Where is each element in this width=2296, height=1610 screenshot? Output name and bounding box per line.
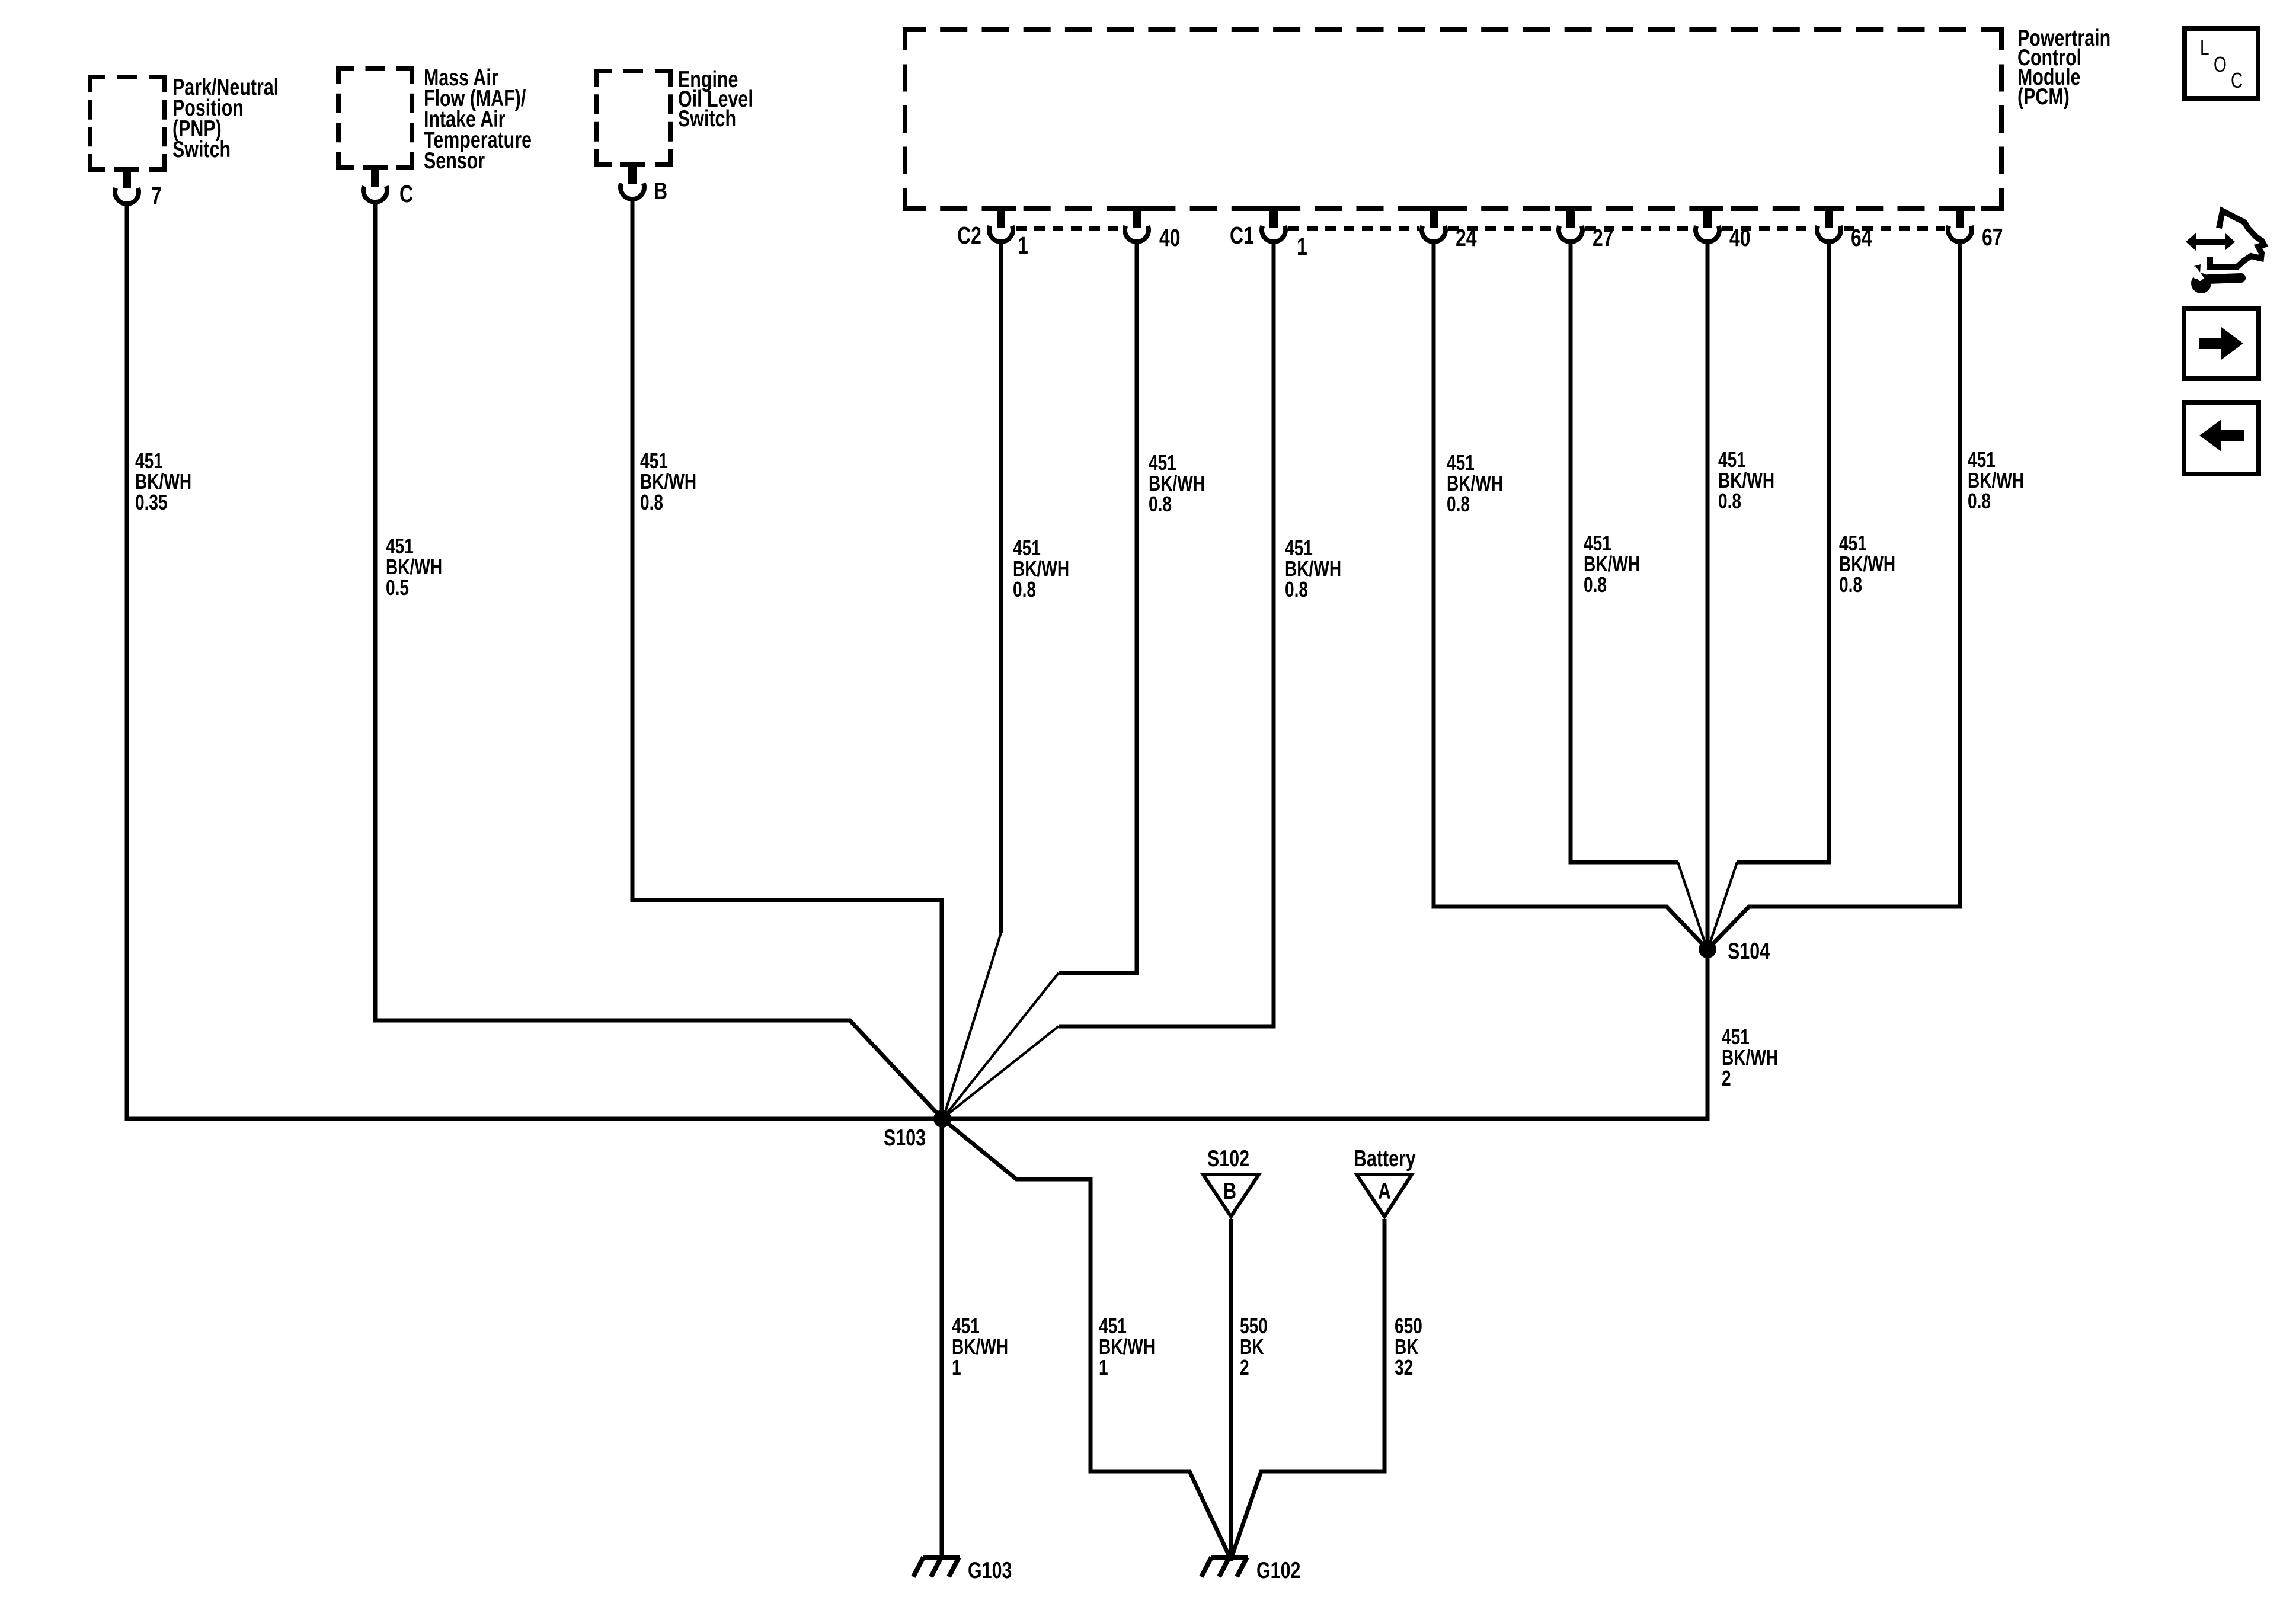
off-page connector S102 pin B triangle — [1203, 1145, 1259, 1217]
wire 451 BK/WH 0.5 MAF-C to S103 — [375, 202, 942, 1119]
wire 451 BK/WH 0.8 PCM C2-1 vertical — [999, 241, 1003, 933]
wire C2-40 splice lead into S103 — [944, 973, 1059, 1118]
wire 451 BK/WH 0.8 PCM C1-64 — [1737, 241, 1829, 862]
svg-text:0.8: 0.8 — [1285, 578, 1308, 601]
wire 451 BK/WH 0.8 oil level-B to S103, S103 to G103 — [632, 199, 942, 1557]
svg-text:S103: S103 — [884, 1125, 926, 1150]
Park/Neutral Position (PNP) Switch dashed box — [90, 77, 164, 169]
wire C1-1 splice lead into S103 — [944, 1026, 1059, 1118]
wire label 451 BK/WH 0.8 at x=1938 — [1149, 451, 1205, 516]
svg-text:24: 24 — [1456, 224, 1477, 251]
svg-text:0.8: 0.8 — [1718, 489, 1741, 513]
MAF/IAT Sensor label — [424, 65, 532, 173]
svg-text:0.8: 0.8 — [1584, 573, 1607, 597]
LOC legend box — [2185, 28, 2258, 98]
wire 451 BK/WH 0.8 PCM C1-40 to S104 — [1706, 241, 1710, 949]
wire C2-1 splice lead into S103 — [944, 933, 1001, 1118]
wire label 650 BK 32 at x=2353 — [1395, 1314, 1422, 1379]
PCM pin number labels — [1018, 223, 2003, 260]
Powertrain Control Module (PCM) dashed box — [905, 30, 2001, 209]
splice S103 — [884, 1110, 951, 1151]
svg-text:C: C — [2231, 69, 2243, 92]
svg-text:G103: G103 — [968, 1557, 1012, 1583]
PCM connector labels C2 C1 — [957, 222, 1254, 249]
svg-text:L: L — [2200, 36, 2209, 59]
Engine oil level switch connector pin B — [620, 162, 667, 204]
Engine Oil Level Switch label — [678, 66, 753, 131]
wire label 451 BK/WH 0.8 at x=2672 — [1584, 532, 1640, 597]
MAF sensor connector pin C — [363, 165, 413, 207]
wire label 451 BK/WH 1 at x=1606 — [952, 1314, 1008, 1379]
svg-text:0.8: 0.8 — [640, 491, 663, 514]
svg-text:Sensor: Sensor — [424, 148, 485, 173]
PCM connector C1 pin 27 terminal — [1555, 206, 1586, 242]
wire label 451 BK/WH 0.35 at x=228 — [135, 449, 191, 514]
PCM connector C1 pin 40 terminal — [1692, 206, 1723, 242]
splice S104 — [1699, 938, 1770, 964]
svg-text:(PCM): (PCM) — [2017, 84, 2070, 109]
svg-text:32: 32 — [1395, 1356, 1413, 1379]
ground G103 — [913, 1557, 1012, 1583]
backward arrow legend box — [2184, 402, 2259, 474]
svg-text:0.8: 0.8 — [1149, 492, 1172, 516]
svg-text:40: 40 — [1729, 224, 1751, 251]
wire 451 BK/WH 0.8 PCM C1-1 — [1059, 241, 1274, 1026]
PCM connector C1 pin 24 terminal — [1418, 206, 1449, 242]
svg-text:0.8: 0.8 — [1968, 489, 1991, 513]
svg-text:1: 1 — [952, 1356, 961, 1379]
svg-text:S102: S102 — [1207, 1145, 1249, 1171]
wire 451 BK/WH 1 S103 to G102 — [942, 1119, 1230, 1557]
off-page connector Battery pin A triangle — [1354, 1145, 1416, 1217]
svg-text:G102: G102 — [1256, 1557, 1300, 1583]
svg-text:2: 2 — [1240, 1356, 1249, 1379]
PCM label — [2017, 25, 2110, 109]
wire label 451 BK/WH 0.5 at x=651 — [386, 534, 442, 600]
svg-text:0.8: 0.8 — [1013, 578, 1036, 601]
svg-text:C2: C2 — [957, 222, 981, 249]
svg-text:Switch: Switch — [678, 105, 736, 131]
Mass Air Flow (MAF)/Intake Air Temperature Sensor dashed box — [338, 68, 412, 168]
Engine Oil Level Switch dashed box — [596, 71, 670, 165]
svg-text:2: 2 — [1722, 1067, 1731, 1090]
ground G102 — [1201, 1557, 1300, 1583]
svg-text:64: 64 — [1851, 224, 1872, 251]
PCM connector face dotted line C1 — [1288, 226, 1945, 231]
wire label 451 BK/WH 1 at x=1854 — [1099, 1314, 1155, 1379]
svg-text:27: 27 — [1593, 224, 1614, 251]
PCM connector face dotted line C2 — [1016, 226, 1122, 231]
wire 451 BK/WH 0.35 PNP-7 to S103, ground bus to S104 — [127, 204, 1707, 1119]
wire 451 BK/WH 0.8 PCM C2-40 — [1059, 241, 1137, 973]
svg-text:0.35: 0.35 — [135, 491, 168, 514]
wire label 451 BK/WH 0.8 at x=2168 — [1285, 536, 1341, 601]
svg-text:B: B — [654, 177, 667, 204]
wire label 451 BK/WH 0.8 at x=2441 — [1447, 451, 1503, 516]
wire C1-64 splice lead into S104 — [1709, 862, 1737, 947]
PCM connector C1 pin 1 terminal — [1258, 206, 1289, 242]
PCM connector C2 pin 1 terminal — [986, 206, 1016, 242]
svg-text:Switch: Switch — [172, 136, 231, 162]
svg-text:B: B — [1223, 1178, 1236, 1204]
PCM connector C1 pin 67 terminal — [1945, 206, 1975, 242]
svg-text:O: O — [2214, 53, 2227, 76]
wire 451 BK/WH 0.8 PCM C1-24 to S104 — [1434, 241, 1706, 948]
wire 451 BK/WH 0.8 PCM C1-27 — [1571, 241, 1678, 862]
wire label 550 BK 2 at x=2092 — [1240, 1314, 1268, 1379]
wire 451 BK/WH 0.8 PCM C1-67 to S104 — [1709, 241, 1960, 948]
svg-text:1: 1 — [1297, 233, 1307, 260]
svg-text:40: 40 — [1159, 224, 1181, 251]
wire label 451 BK/WH 0.8 at x=1080 — [640, 449, 696, 514]
svg-text:7: 7 — [151, 182, 162, 209]
svg-text:1: 1 — [1018, 232, 1028, 259]
svg-text:0.5: 0.5 — [386, 576, 409, 600]
forward arrow legend box — [2184, 308, 2259, 379]
svg-text:0.8: 0.8 — [1839, 573, 1862, 597]
wire label 451 BK/WH 0.8 at x=2899 — [1718, 448, 1774, 513]
wire label 451 BK/WH 0.8 at x=3103 — [1839, 532, 1895, 597]
svg-text:Battery: Battery — [1354, 1145, 1416, 1171]
svg-text:1: 1 — [1099, 1356, 1108, 1379]
svg-text:C: C — [399, 180, 413, 207]
vehicle location icon wrench — [2189, 264, 2241, 293]
wire C1-27 splice lead into S104 — [1678, 862, 1706, 947]
wire label 451 BK/WH 2 at x=2905 — [1722, 1025, 1778, 1090]
vehicle location icon body outline — [2210, 211, 2264, 267]
vehicle location icon double arrow — [2186, 233, 2235, 251]
PCM connector C1 pin 64 terminal — [1814, 206, 1844, 242]
svg-text:0.8: 0.8 — [1447, 492, 1470, 516]
wire label 451 BK/WH 0.8 at x=3320 — [1968, 448, 2024, 513]
svg-text:A: A — [1378, 1178, 1391, 1204]
svg-text:C1: C1 — [1230, 222, 1254, 249]
PCM connector C2 pin 40 terminal — [1121, 206, 1152, 242]
svg-text:67: 67 — [1982, 223, 2003, 251]
PNP Switch label — [172, 74, 279, 162]
wire label 451 BK/WH 0.8 at x=1709 — [1013, 536, 1069, 601]
wire 650 BK 32 Battery-A to G102 — [1232, 1219, 1384, 1557]
wire 550 BK 2 S102-B to G102 — [1229, 1219, 1233, 1561]
PNP switch connector pin 7 — [114, 167, 162, 209]
svg-text:S104: S104 — [1728, 938, 1770, 964]
